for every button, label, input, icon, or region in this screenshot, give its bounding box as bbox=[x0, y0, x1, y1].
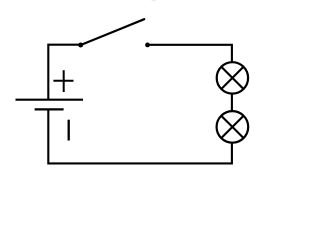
battery positive label bbox=[53, 70, 73, 92]
wire bbox=[48, 45, 80, 100]
battery negative label bbox=[68, 120, 70, 141]
battery cell B1 bbox=[16, 100, 84, 110]
wire bbox=[148, 45, 232, 62]
wire bbox=[48, 109, 232, 163]
lamp L1 bbox=[217, 62, 248, 93]
switch S1 bbox=[78, 19, 150, 47]
lamp L2 bbox=[217, 111, 249, 143]
wire bbox=[231, 93, 233, 111]
